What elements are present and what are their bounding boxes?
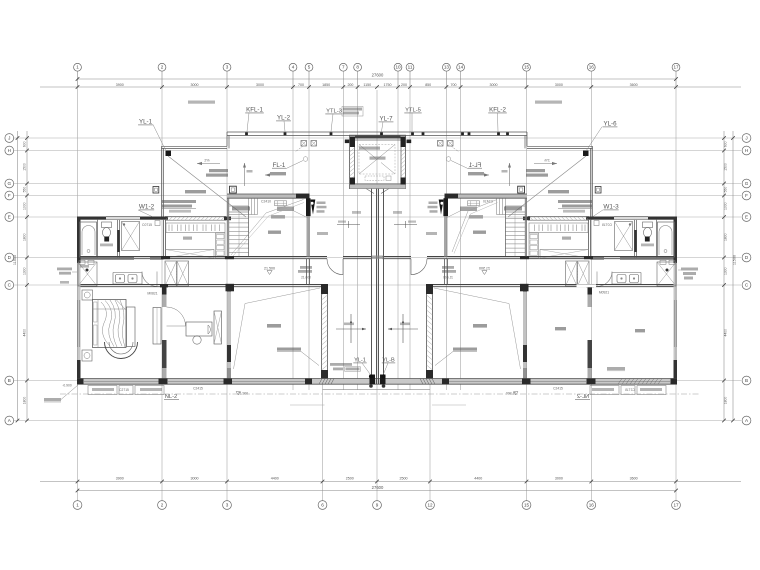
svg-text:4: 4 — [292, 65, 295, 70]
svg-text:11: 11 — [408, 65, 413, 70]
svg-text:1800: 1800 — [23, 233, 27, 241]
svg-text:3: 3 — [226, 65, 229, 70]
svg-text:M0821: M0821 — [147, 292, 157, 296]
svg-text:9: 9 — [376, 503, 379, 508]
svg-text:W1-2: W1-2 — [139, 204, 155, 211]
svg-text:H: H — [8, 148, 11, 153]
svg-text:YL-6: YL-6 — [603, 121, 617, 128]
svg-text:1850: 1850 — [322, 83, 330, 87]
svg-text:-0.900: -0.900 — [62, 384, 72, 388]
svg-text:1: 1 — [76, 503, 79, 508]
svg-text:3000: 3000 — [256, 83, 264, 87]
svg-text:C2715: C2715 — [119, 388, 129, 392]
svg-text:B: B — [8, 378, 11, 383]
svg-text:F: F — [745, 193, 748, 198]
svg-text:1500: 1500 — [23, 163, 27, 171]
svg-text:10: 10 — [395, 65, 401, 70]
svg-text:13: 13 — [444, 65, 450, 70]
svg-text:3600: 3600 — [630, 83, 638, 87]
svg-text:600: 600 — [23, 141, 27, 147]
svg-text:16: 16 — [589, 503, 595, 508]
svg-text:21.500: 21.500 — [264, 267, 275, 271]
svg-text:8: 8 — [356, 65, 359, 70]
svg-text:17: 17 — [673, 503, 679, 508]
svg-text:1750: 1750 — [384, 83, 392, 87]
svg-text:1800: 1800 — [723, 397, 727, 405]
svg-text:4400: 4400 — [723, 329, 727, 337]
svg-text:1150: 1150 — [363, 83, 371, 87]
svg-text:3000: 3000 — [555, 83, 563, 87]
svg-text:27600: 27600 — [372, 485, 384, 490]
svg-text:700: 700 — [451, 83, 457, 87]
svg-text:1300: 1300 — [723, 267, 727, 275]
svg-text:F: F — [8, 193, 11, 198]
svg-text:3000: 3000 — [191, 83, 199, 87]
svg-text:2: 2 — [161, 65, 164, 70]
svg-text:3000: 3000 — [191, 477, 199, 481]
svg-text:1800: 1800 — [23, 397, 27, 405]
svg-text:G: G — [8, 181, 12, 186]
svg-text:14: 14 — [458, 65, 464, 70]
svg-text:M0921: M0921 — [599, 291, 609, 295]
svg-text:550: 550 — [23, 187, 27, 193]
svg-text:E: E — [745, 215, 748, 220]
svg-text:12: 12 — [427, 503, 433, 508]
svg-text:6: 6 — [321, 503, 324, 508]
svg-text:B: B — [745, 378, 748, 383]
svg-text:1000: 1000 — [23, 202, 27, 210]
svg-text:KFL-1: KFL-1 — [246, 107, 263, 114]
svg-text:200: 200 — [401, 83, 407, 87]
svg-text:700: 700 — [298, 83, 304, 87]
svg-text:11500: 11500 — [732, 255, 736, 265]
svg-text:850: 850 — [425, 83, 431, 87]
svg-text:1500: 1500 — [723, 163, 727, 171]
svg-text:1: 1 — [76, 65, 79, 70]
svg-text:4400: 4400 — [271, 477, 279, 481]
svg-text:2500: 2500 — [400, 477, 408, 481]
svg-text:4400: 4400 — [474, 477, 482, 481]
svg-text:2500: 2500 — [346, 477, 354, 481]
svg-text:550: 550 — [723, 187, 727, 193]
svg-text:G: G — [745, 181, 749, 186]
svg-text:600: 600 — [723, 141, 727, 147]
svg-text:3600: 3600 — [630, 477, 638, 481]
svg-text:27600: 27600 — [372, 73, 384, 78]
svg-text:2: 2 — [161, 503, 164, 508]
svg-text:C0715: C0715 — [142, 223, 152, 227]
svg-text:J: J — [745, 136, 747, 141]
svg-text:C2410: C2410 — [261, 199, 271, 203]
svg-text:16: 16 — [589, 65, 595, 70]
svg-text:KFL-2: KFL-2 — [489, 107, 506, 114]
svg-text:YL-1: YL-1 — [139, 119, 153, 126]
svg-text:15: 15 — [524, 65, 530, 70]
svg-text:5: 5 — [308, 65, 311, 70]
svg-text:J: J — [8, 136, 10, 141]
svg-text:21.900: 21.900 — [238, 392, 248, 396]
svg-text:C2415: C2415 — [553, 386, 563, 390]
svg-text:E: E — [8, 215, 11, 220]
svg-text:3900: 3900 — [116, 83, 124, 87]
svg-text:W1-3: W1-3 — [603, 204, 619, 211]
svg-text:3000: 3000 — [555, 477, 563, 481]
svg-text:3000: 3000 — [490, 83, 498, 87]
svg-text:3: 3 — [226, 503, 229, 508]
svg-text:7: 7 — [342, 65, 345, 70]
svg-text:1300: 1300 — [23, 267, 27, 275]
svg-text:YL-7: YL-7 — [379, 116, 393, 123]
svg-text:15: 15 — [524, 503, 530, 508]
svg-text:4400: 4400 — [23, 329, 27, 337]
svg-text:C2415: C2415 — [193, 386, 203, 390]
svg-text:200: 200 — [347, 83, 353, 87]
svg-text:1800: 1800 — [723, 233, 727, 241]
svg-text:3900: 3900 — [116, 477, 124, 481]
svg-text:H: H — [745, 148, 748, 153]
svg-text:1000: 1000 — [723, 202, 727, 210]
svg-text:YL-2: YL-2 — [277, 115, 291, 122]
svg-text:2%: 2% — [204, 158, 210, 162]
svg-text:17: 17 — [673, 65, 679, 70]
